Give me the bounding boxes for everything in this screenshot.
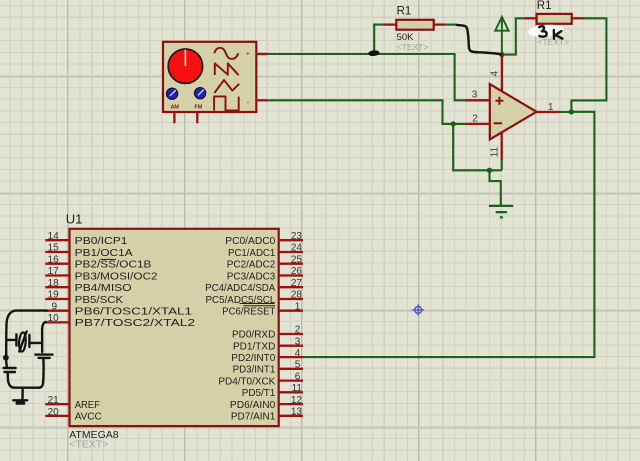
microcontroller U1 ATMEGA8 body bbox=[70, 229, 279, 426]
svg-text:2: 2 bbox=[472, 113, 478, 124]
signal generator amplitude knob (red dial) bbox=[168, 49, 202, 83]
svg-text:23: 23 bbox=[291, 231, 303, 242]
svg-text:4: 4 bbox=[490, 70, 501, 76]
svg-text:1: 1 bbox=[295, 301, 301, 312]
resistor R1 50K body bbox=[396, 20, 433, 30]
svg-text:PC2/ADC2: PC2/ADC2 bbox=[227, 259, 276, 271]
FM knob (blue) bbox=[194, 88, 205, 99]
hand-drawn ink: ground stem bbox=[21, 388, 24, 399]
hand-drawn ink: wire from pin 9 to crystal left bbox=[6, 311, 47, 356]
svg-text:1: 1 bbox=[548, 102, 554, 113]
svg-text:27: 27 bbox=[291, 278, 303, 289]
svg-text:11: 11 bbox=[490, 146, 501, 157]
overline over SCL of PC5 bbox=[240, 303, 275, 305]
hand-drawn ink: crystal right lead bbox=[31, 342, 42, 344]
svg-text:PB5/SCK: PB5/SCK bbox=[75, 294, 124, 306]
FM knob pointer bbox=[198, 90, 204, 96]
resistor R1 3K body bbox=[537, 14, 572, 24]
op-amp U1 triangle bbox=[490, 84, 537, 139]
svg-text:PB4/MISO: PB4/MISO bbox=[75, 282, 132, 294]
svg-text:+: + bbox=[246, 50, 250, 57]
svg-text:PD5/T1: PD5/T1 bbox=[242, 387, 276, 399]
hand-drawn ink: right capacitor to bottom rail bbox=[39, 359, 43, 388]
hand-drawn ink: slash through crystal bbox=[19, 332, 26, 352]
op-amp pin 4 wire bbox=[501, 55, 503, 91]
wire: branch up to R1 50K left lead bbox=[374, 25, 384, 54]
svg-text:13: 13 bbox=[291, 407, 303, 418]
hand-drawn ink: blob over junction of 50K branch bbox=[368, 50, 380, 57]
svg-text:AVCC: AVCC bbox=[75, 411, 102, 423]
U1 left pin stubs (pins 14,15,16,17,18,19,9,10,21,20) bbox=[45, 240, 69, 416]
hand-drawn ink: crystal left lead bbox=[6, 339, 16, 341]
overline over SS of PB2 bbox=[100, 258, 116, 260]
svg-text:PB1/OC1A: PB1/OC1A bbox=[75, 247, 133, 259]
svg-text:PB7/TOSC2/XTAL2: PB7/TOSC2/XTAL2 bbox=[75, 317, 196, 329]
hand-written k of 3K bbox=[554, 30, 563, 39]
wire: pin2 node down to ground net bbox=[453, 124, 502, 170]
hand-drawn ink: ground bars bbox=[13, 399, 27, 401]
svg-text:PD2/INT0: PD2/INT0 bbox=[231, 352, 275, 364]
hand-drawn ink: wire from pin 10 down right branch bbox=[42, 322, 46, 352]
U1 left pin numbers bbox=[48, 231, 60, 418]
junction node at VCC bbox=[499, 52, 504, 57]
svg-text:19: 19 bbox=[48, 290, 60, 301]
svg-text:18: 18 bbox=[48, 278, 60, 289]
svg-text:U1: U1 bbox=[66, 212, 83, 227]
svg-text:11: 11 bbox=[292, 383, 303, 394]
U1 right pin numbers bbox=[291, 231, 303, 418]
op-amp pin 2 stub bbox=[465, 123, 490, 125]
svg-text:PD7/AIN1: PD7/AIN1 bbox=[231, 411, 276, 423]
svg-text:16: 16 bbox=[48, 254, 60, 265]
hand-drawn ink: left capacitor plates bbox=[4, 368, 16, 372]
power arrow VCC symbol bbox=[495, 17, 508, 55]
overline over RESET of PC6 bbox=[244, 305, 276, 307]
svg-text:5: 5 bbox=[295, 360, 301, 371]
svg-text:PC1/ADC1: PC1/ADC1 bbox=[228, 247, 275, 259]
svg-text:10: 10 bbox=[48, 313, 60, 324]
hand-drawn ink: jumper from R1 50K to VCC junction bbox=[457, 25, 501, 55]
resistor R1 3K left lead bbox=[525, 17, 537, 19]
svg-text:2: 2 bbox=[295, 325, 301, 336]
svg-text:PC4/ADC4/SDA: PC4/ADC4/SDA bbox=[205, 282, 275, 294]
hand-drawn ink: junction dot left branch bbox=[3, 355, 9, 361]
sine waveform glyph bbox=[214, 48, 238, 59]
hand-drawn ink: left branch down to capacitor bbox=[5, 360, 8, 368]
signal generator body bbox=[163, 42, 256, 112]
U1 left pin names bbox=[75, 235, 196, 423]
svg-text:PD0/RXD: PD0/RXD bbox=[232, 329, 276, 341]
svg-text:25: 25 bbox=[291, 254, 303, 265]
hand-drawn ink: left capacitor to bottom rail bbox=[8, 373, 40, 388]
U1 right pin names bbox=[205, 235, 276, 423]
svg-text:PB0/ICP1: PB0/ICP1 bbox=[75, 235, 128, 247]
junction node at ground branch bbox=[487, 168, 492, 173]
generator bottom pin stubs bbox=[174, 112, 197, 123]
svg-text:<TEXT>: <TEXT> bbox=[397, 42, 429, 52]
svg-text:PB3/MOSI/OC2: PB3/MOSI/OC2 bbox=[75, 270, 158, 282]
svg-text:9: 9 bbox=[51, 301, 57, 312]
resistor R1 50K left lead bbox=[384, 23, 398, 25]
hand-drawn ink: crystal oval body bbox=[18, 332, 26, 352]
wire: R1 3K right to feedback down bbox=[571, 18, 606, 112]
wire: output to feedback junction and PD2 net bbox=[303, 112, 595, 357]
svg-text:PB2/SS/OC1B: PB2/SS/OC1B bbox=[75, 259, 152, 271]
triangle waveform glyph bbox=[214, 80, 239, 93]
svg-text:26: 26 bbox=[291, 266, 303, 277]
svg-text:17: 17 bbox=[48, 266, 60, 277]
junction node at pin2 branch bbox=[451, 121, 456, 126]
op-amp pin 11 stub bbox=[501, 132, 503, 161]
svg-text:PD6/AIN0: PD6/AIN0 bbox=[230, 399, 276, 411]
hand-drawn ink: crystal right plate bbox=[28, 335, 30, 347]
wire: pin 11 drop to ground net bbox=[501, 160, 503, 170]
resistor R1 50K right lead bbox=[434, 23, 445, 25]
svg-text:15: 15 bbox=[48, 243, 60, 254]
U1 right pin stubs (pins 23..28,1 and 2,3,4,5,6,11,12,13) bbox=[279, 240, 303, 416]
wire: VCC junction to R1 3K left lead bbox=[502, 18, 525, 54]
svg-text:24: 24 bbox=[291, 243, 303, 254]
generator - output pin stub bbox=[256, 99, 268, 101]
op-amp - input mark bbox=[494, 122, 502, 124]
svg-text:PC6/RESET: PC6/RESET bbox=[222, 306, 276, 318]
wire: R1 50K right green stub bbox=[445, 24, 457, 26]
svg-text:20: 20 bbox=[48, 407, 60, 418]
svg-text:PD4/T0/XCK: PD4/T0/XCK bbox=[218, 375, 275, 387]
svg-text:28: 28 bbox=[291, 290, 303, 301]
svg-text:PB6/TOSC1/XTAL1: PB6/TOSC1/XTAL1 bbox=[75, 306, 192, 318]
generator + output pin stub bbox=[256, 53, 268, 55]
svg-text:PC0/ADC0: PC0/ADC0 bbox=[225, 235, 275, 247]
white correction blob under 3K bbox=[527, 23, 563, 37]
hand-drawn ink: crystal left plate bbox=[15, 334, 17, 345]
blue origin marker bbox=[412, 304, 424, 316]
op-amp output pin 1 stub bbox=[536, 111, 561, 113]
sawtooth waveform glyph bbox=[215, 63, 239, 75]
AM knob (blue) bbox=[166, 88, 177, 99]
wire: generator - to op-amp pin 2 bbox=[268, 100, 465, 124]
wire: ground jog below junction bbox=[490, 170, 501, 206]
svg-text:FM: FM bbox=[195, 104, 203, 110]
svg-text:21: 21 bbox=[48, 395, 60, 406]
amplitude knob pointer bbox=[184, 50, 186, 66]
svg-text:3: 3 bbox=[472, 90, 478, 101]
svg-text:6: 6 bbox=[295, 371, 301, 382]
svg-text:PC3/ADC3: PC3/ADC3 bbox=[227, 270, 276, 282]
square waveform glyph bbox=[214, 96, 239, 110]
svg-text:R1: R1 bbox=[397, 6, 412, 18]
svg-text:3: 3 bbox=[295, 336, 301, 347]
svg-text:<TEXT>: <TEXT> bbox=[69, 439, 108, 451]
wire: generator + to pin3 vertical net bbox=[268, 54, 465, 100]
resistor R1 3K right lead bbox=[572, 17, 585, 19]
AM knob pointer bbox=[170, 90, 176, 96]
svg-text:4: 4 bbox=[295, 348, 301, 359]
ground symbol below op-amp bbox=[489, 206, 513, 218]
svg-text:AREF: AREF bbox=[75, 399, 100, 411]
svg-text:PD3/INT1: PD3/INT1 bbox=[233, 364, 276, 376]
junction node at output bbox=[569, 109, 574, 114]
op-amp + input mark bbox=[495, 97, 503, 105]
op-amp pin 3 stub bbox=[465, 99, 490, 101]
hand-drawn ink: right capacitor plates bbox=[35, 353, 52, 355]
svg-text:R1: R1 bbox=[537, 0, 552, 12]
svg-text:12: 12 bbox=[291, 395, 303, 406]
svg-text:PD1/TXD: PD1/TXD bbox=[233, 340, 276, 352]
hand-written 3 of 3K bbox=[539, 26, 546, 36]
svg-text:14: 14 bbox=[48, 231, 60, 242]
svg-text:AM: AM bbox=[171, 104, 180, 110]
